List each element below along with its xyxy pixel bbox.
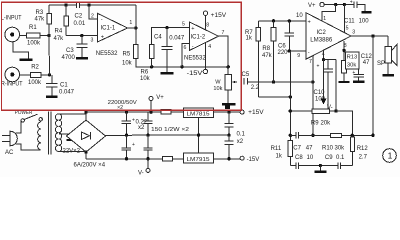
svg-text:R4: R4 [55,29,63,35]
svg-text:R3: R3 [36,10,44,16]
svg-text:10k: 10k [140,76,151,82]
svg-text:C9: C9 [325,155,333,161]
svg-text:C2: C2 [75,14,83,20]
svg-text:R5: R5 [123,52,131,58]
svg-text:0.1: 0.1 [336,155,345,161]
svg-text:0.047: 0.047 [169,36,185,42]
svg-text:5: 5 [182,21,185,27]
svg-text:47k: 47k [54,36,65,42]
svg-text:R13: R13 [347,55,358,61]
svg-text:6A/200V ×4: 6A/200V ×4 [74,162,106,168]
svg-text:+: + [308,19,311,25]
svg-text:6: 6 [184,45,187,51]
svg-text:R6: R6 [141,69,149,75]
svg-text:1: 1 [388,151,393,161]
svg-text:5: 5 [346,25,349,31]
svg-text:1k: 1k [246,35,253,41]
svg-text:3: 3 [352,30,355,36]
svg-text:4700: 4700 [62,55,76,61]
svg-text:47k: 47k [262,53,273,59]
svg-text:C1: C1 [60,83,68,89]
svg-text:R-INPUT: R-INPUT [1,82,23,88]
svg-text:x2: x2 [237,139,244,145]
svg-text:4: 4 [208,44,211,50]
svg-text:+15V: +15V [248,110,264,116]
svg-text:47k: 47k [35,17,46,23]
svg-text:47: 47 [363,60,370,66]
svg-text:30k: 30k [347,63,356,69]
svg-text:IC1-1: IC1-1 [101,25,116,31]
svg-text:C3: C3 [66,48,74,54]
svg-text:R12: R12 [357,146,369,152]
svg-text:+: + [352,70,355,76]
svg-text:R9: R9 [311,120,319,126]
svg-text:10k: 10k [122,60,133,66]
svg-text:8: 8 [206,22,209,28]
svg-text:+: + [101,34,104,40]
svg-text:C4: C4 [154,35,162,41]
svg-text:+15V: +15V [211,13,227,19]
svg-text:V-: V- [138,170,144,176]
svg-text:1k: 1k [276,154,283,160]
svg-text:V+: V+ [156,95,164,101]
svg-text:C6: C6 [278,44,286,50]
svg-text:R10: R10 [322,146,334,152]
svg-text:-: - [192,44,194,50]
svg-text:47: 47 [306,146,313,152]
svg-text:NE5532: NE5532 [96,51,118,57]
svg-text:10: 10 [296,13,303,19]
svg-text:C8: C8 [295,155,303,161]
svg-text:-: - [101,16,103,22]
svg-text:C11: C11 [344,18,355,24]
svg-text:150 1/2W ×2: 150 1/2W ×2 [151,127,189,133]
svg-text:+: + [132,142,135,148]
svg-text:30k: 30k [335,146,346,152]
svg-text:IC1-2: IC1-2 [191,35,206,41]
svg-text:20k: 20k [321,120,332,126]
svg-text:LM7915: LM7915 [187,157,210,163]
svg-text:C7: C7 [293,146,301,152]
svg-text:AC: AC [5,150,14,156]
svg-text:1: 1 [129,20,132,26]
svg-text:V+: V+ [308,3,316,9]
svg-text:-15V: -15V [247,157,260,163]
svg-text:0.047: 0.047 [59,90,75,96]
svg-text:x2: x2 [138,125,145,131]
svg-text:3: 3 [91,37,94,43]
svg-text:+: + [317,63,320,69]
svg-text:10: 10 [307,155,314,161]
svg-text:10k: 10k [213,86,222,92]
svg-text:9: 9 [297,53,300,59]
svg-text:-: - [308,50,310,56]
svg-text:2: 2 [91,13,94,19]
svg-text:7: 7 [309,59,312,65]
svg-text:SP: SP [377,61,385,67]
svg-text:0.01: 0.01 [74,21,86,27]
svg-text:0.1: 0.1 [237,132,246,138]
svg-text:+: + [350,0,353,5]
svg-text:R1: R1 [29,25,37,31]
svg-text:W: W [215,80,221,86]
svg-text:R8: R8 [262,46,270,52]
svg-text:100k: 100k [28,80,42,86]
svg-text:220: 220 [278,50,289,56]
svg-text:NE5532: NE5532 [184,55,206,61]
svg-text:1: 1 [323,16,326,22]
svg-text:7: 7 [222,30,225,36]
svg-text:+: + [191,26,194,32]
svg-text:LM7815: LM7815 [187,111,210,117]
svg-text:100: 100 [359,18,370,24]
svg-text:LM3886: LM3886 [310,37,333,43]
svg-text:C5: C5 [242,72,250,78]
svg-text:-15V: -15V [187,71,203,77]
svg-text:IC2: IC2 [317,30,327,36]
svg-text:L-INPUT: L-INPUT [1,16,22,22]
svg-text:R11: R11 [271,146,282,152]
svg-text:R2: R2 [31,64,39,70]
svg-text:100k: 100k [27,41,41,47]
svg-text:2.7: 2.7 [359,154,368,160]
